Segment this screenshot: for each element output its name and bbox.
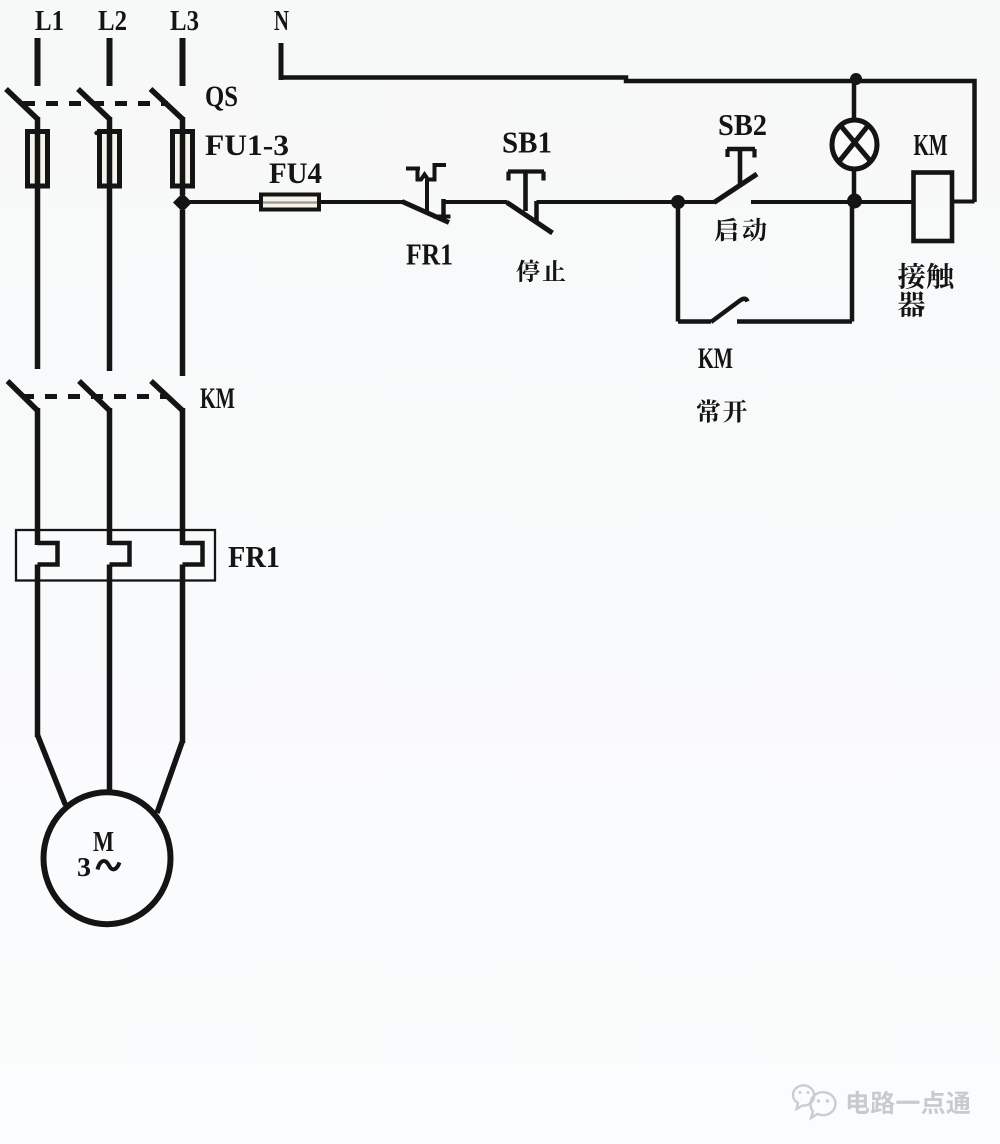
- svg-text:FU4: FU4: [269, 157, 322, 190]
- svg-text:SB1: SB1: [502, 125, 552, 160]
- svg-text:L2: L2: [98, 6, 127, 37]
- svg-text:KM: KM: [200, 382, 235, 415]
- svg-text:FR1: FR1: [228, 539, 280, 574]
- svg-text:FR1: FR1: [406, 237, 453, 272]
- svg-text:M: M: [93, 826, 114, 858]
- svg-text:SB2: SB2: [718, 107, 767, 142]
- svg-text:QS: QS: [205, 80, 238, 113]
- svg-text:L3: L3: [170, 6, 199, 37]
- svg-text:KM: KM: [914, 127, 948, 162]
- svg-text:L1: L1: [35, 6, 64, 37]
- svg-text:N: N: [274, 6, 289, 37]
- svg-text:KM: KM: [698, 342, 733, 375]
- svg-text:3: 3: [77, 852, 91, 882]
